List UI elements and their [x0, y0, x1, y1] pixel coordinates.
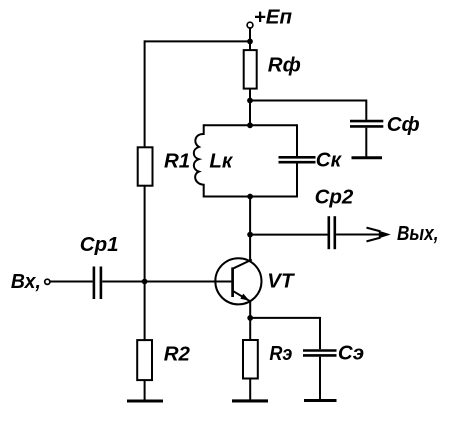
resistor R2 — [137, 340, 152, 380]
node junction tank bottom — [247, 194, 253, 200]
wire tank right side lower — [296, 164, 298, 198]
wire collector vertical — [249, 197, 251, 261]
wire tank right side upper — [296, 124, 298, 156]
transistor emitter diagonal — [234, 291, 251, 301]
svg-text:+Еп: +Еп — [254, 5, 293, 28]
wire emitter junction down to Re — [249, 318, 251, 340]
output arrow — [367, 228, 381, 232]
wire Rf bottom down to tank top — [249, 89, 251, 126]
wire R2 to ground — [144, 380, 146, 401]
node junction base/divider — [142, 279, 148, 285]
svg-text:R2: R2 — [164, 343, 191, 366]
ground under Ce — [304, 399, 337, 402]
emitter arrowhead — [240, 294, 249, 301]
transistor VT circle — [215, 258, 261, 304]
wire Cp1 to base junction and on to base — [102, 281, 231, 283]
wire input to Cp1 — [50, 281, 92, 283]
transistor base bar — [231, 267, 234, 297]
terminal +Ep open circle — [247, 22, 253, 28]
svg-text:Lк: Lк — [209, 150, 234, 173]
terminal input open circle — [45, 279, 50, 284]
svg-text:Ср2: Ср2 — [315, 186, 354, 209]
svg-text:Cк: Cк — [316, 148, 343, 171]
node junction below +Ep — [247, 39, 253, 45]
resistor Rf — [244, 50, 257, 89]
svg-text:Rф: Rф — [268, 53, 301, 76]
capacitor Ck — [279, 156, 316, 159]
svg-text:Сф: Сф — [387, 113, 420, 136]
wire Cf bottom — [365, 128, 367, 157]
capacitor Ce — [303, 349, 337, 352]
svg-text:Rэ: Rэ — [269, 342, 292, 365]
wire from +Ep terminal down to Rf — [249, 28, 251, 50]
wire output horizontal — [250, 234, 327, 236]
wire tank top edge — [204, 124, 297, 126]
wire emitter vertical — [249, 302, 251, 319]
wire left vertical down to R1 — [144, 40, 146, 147]
svg-text:R1: R1 — [164, 150, 190, 173]
wire top horizontal to left branch — [145, 40, 250, 42]
resistor R1 — [138, 147, 153, 185]
wire to Cf branch — [250, 101, 366, 120]
resistor Re — [243, 340, 258, 379]
ground under R2 — [127, 399, 163, 402]
svg-text:Вых,: Вых, — [397, 222, 439, 245]
node junction emitter — [247, 315, 253, 321]
svg-text:Ср1: Ср1 — [80, 233, 119, 256]
inductor Lk (left side of tank) — [194, 124, 204, 197]
capacitor Cp1 — [93, 267, 96, 300]
ground bar under Cf — [352, 156, 383, 159]
node junction tank top — [247, 122, 253, 128]
ground under Re — [232, 399, 268, 402]
wire emitter junction to Ce branch — [250, 318, 320, 349]
svg-text:Сэ: Сэ — [338, 341, 364, 364]
capacitor Cf — [350, 120, 383, 123]
wire tank bottom edge — [204, 196, 297, 198]
svg-text:VT: VT — [267, 270, 295, 293]
wire to output arrow — [336, 234, 381, 236]
transistor collector diagonal — [234, 260, 252, 269]
wire Re to ground — [249, 379, 251, 401]
wire Ce to ground — [319, 357, 321, 400]
svg-text:Вх,: Вх, — [11, 270, 41, 293]
wire R1 to R2 — [144, 186, 146, 340]
node junction below Rf — [247, 98, 253, 104]
node junction output — [247, 232, 253, 238]
capacitor Cp2 — [327, 216, 330, 249]
